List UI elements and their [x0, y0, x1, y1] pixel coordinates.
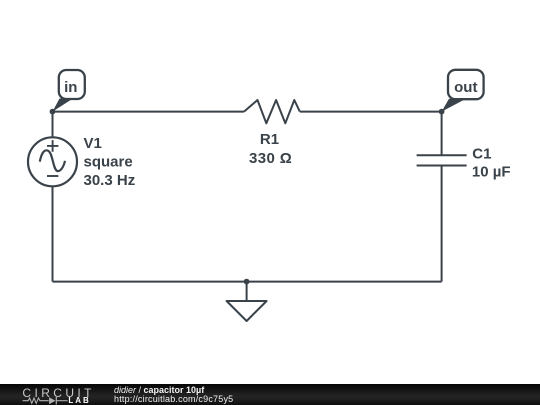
label out [454, 79, 477, 96]
CircuitLab logo: CIRCUIT text [22, 387, 94, 399]
svg-text:C1: C1 [472, 146, 491, 163]
wire: node out down to C1 top plate [441, 112, 443, 156]
flag in [53, 70, 85, 112]
ground [227, 282, 267, 321]
wire: bottom rail [53, 281, 442, 283]
footer url text [114, 395, 233, 404]
label V1 [84, 135, 102, 152]
svg-text:square: square [84, 154, 133, 171]
label in [64, 79, 77, 96]
label R1 [260, 131, 279, 148]
svg-text:V1: V1 [84, 135, 102, 152]
svg-text:10 µF: 10 µF [472, 163, 511, 180]
node: ground junction [244, 279, 250, 285]
footer bar [0, 384, 540, 405]
svg-text:R1: R1 [260, 131, 279, 148]
resistor R1 [244, 100, 300, 123]
wire: V1 bottom to bottom rail [52, 186, 54, 281]
node in [50, 109, 56, 115]
node out [439, 109, 445, 115]
label 330 ohm [249, 150, 292, 167]
label 30.3 Hz [84, 172, 136, 189]
CircuitLab logo: LAB text [68, 397, 90, 405]
wire: node in down to V1 top [52, 112, 54, 138]
wire: R1 right to node out [300, 111, 442, 113]
svg-text:330 Ω: 330 Ω [249, 150, 292, 167]
svg-text:in: in [64, 79, 77, 96]
wire: C1 bottom plate to bottom rail [441, 166, 443, 282]
footer title text [114, 386, 204, 395]
capacitor C1 [417, 155, 467, 165]
wire: node in to R1 left [53, 111, 245, 113]
svg-text:30.3 Hz: 30.3 Hz [84, 172, 136, 189]
flag out [442, 70, 484, 112]
voltage source V1 [28, 137, 77, 186]
CircuitLab logo: resistor-diode squiggle [22, 396, 68, 405]
label square [84, 154, 133, 171]
label C1 [472, 146, 491, 163]
svg-text:out: out [454, 79, 477, 96]
label 10 uF [472, 163, 511, 180]
